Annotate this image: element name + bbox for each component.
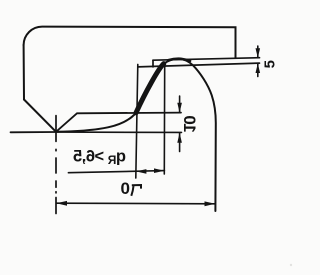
concave profile curve from V-tip bbox=[56, 113, 136, 132]
arrow 10 down bbox=[177, 103, 182, 113]
vertical dash-dot centerline bbox=[55, 116, 57, 214]
faint paper speck bbox=[290, 264, 292, 266]
svg-text:qR >6,5: qR >6,5 bbox=[73, 148, 126, 168]
dim line 70 bbox=[57, 202, 216, 205]
wheel left edge bbox=[23, 45, 25, 100]
tab bottom edge (line A) with extension to 5-dim bbox=[153, 58, 260, 61]
bold profile segment bbox=[136, 64, 164, 113]
arrow 70 left bbox=[56, 201, 67, 206]
nose dome and right edge bbox=[164, 59, 216, 211]
step between line A and line B bbox=[152, 60, 154, 67]
dome apex contact band bbox=[169, 59, 191, 61]
dim 5 arrow tails bbox=[257, 46, 259, 77]
arrow 5 up bbox=[256, 63, 261, 73]
arrow qR left bbox=[136, 169, 147, 174]
qR right extension line bbox=[163, 64, 165, 175]
wheel underside: diagonal and flat (line C) bbox=[56, 113, 181, 132]
dim line qR bbox=[68, 171, 164, 173]
svg-text:5: 5 bbox=[262, 60, 279, 68]
svg-text:1: 1 bbox=[180, 123, 199, 132]
centerline extension right (line D) bbox=[56, 131, 182, 133]
arrow 5 down bbox=[256, 48, 261, 58]
dim 10 arrow tails bbox=[179, 96, 181, 152]
arrow 10 up bbox=[177, 133, 182, 143]
svg-text:0: 0 bbox=[120, 179, 129, 198]
qR left extension line bbox=[136, 64, 138, 178]
surface line (line B) with extension to 5-dim bbox=[138, 63, 260, 67]
mirrored draft-style 7 bbox=[131, 185, 141, 196]
arrow qR right bbox=[154, 168, 165, 173]
wheel chamfer to V-tip bbox=[24, 100, 56, 132]
wheel body outline: rounded top-left corner, top edge, right tab edge bbox=[24, 27, 236, 58]
horizontal centerline left of V-tip bbox=[11, 131, 57, 133]
arrow 70 right bbox=[205, 201, 216, 206]
